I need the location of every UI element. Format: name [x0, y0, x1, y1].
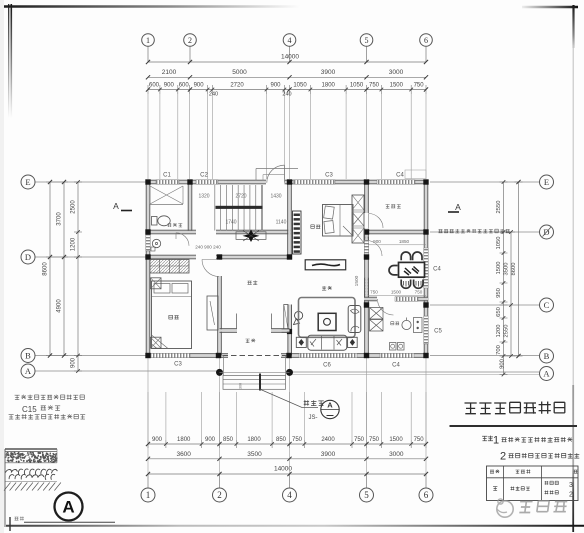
svg-text:4: 4: [287, 490, 292, 500]
svg-text:1: 1: [146, 36, 150, 45]
svg-text:C: C: [544, 300, 550, 310]
svg-text:3900: 3900: [321, 69, 336, 76]
svg-text:1200: 1200: [496, 325, 502, 338]
svg-text:5: 5: [365, 36, 369, 45]
svg-text:750: 750: [292, 437, 303, 443]
svg-text:A: A: [455, 202, 461, 212]
svg-text:C4: C4: [392, 363, 400, 369]
svg-text:3500: 3500: [247, 451, 262, 458]
svg-text:C15: C15: [22, 405, 37, 414]
svg-text:240: 240: [282, 92, 291, 98]
svg-text:2: 2: [569, 492, 573, 499]
svg-text:1050: 1050: [350, 83, 364, 89]
svg-text:300: 300: [239, 383, 243, 389]
svg-text:1: 1: [146, 490, 151, 500]
svg-text:1500: 1500: [390, 83, 404, 89]
svg-text:4: 4: [288, 36, 292, 45]
svg-text:2: 2: [217, 490, 222, 500]
svg-text:2400: 2400: [321, 437, 335, 443]
svg-text:A: A: [62, 498, 74, 517]
svg-text:2720: 2720: [235, 194, 246, 200]
svg-text:900: 900: [194, 83, 205, 89]
svg-text:750: 750: [370, 290, 378, 295]
svg-text:850: 850: [276, 437, 287, 443]
svg-text:2: 2: [500, 451, 506, 463]
svg-text:1800: 1800: [247, 437, 261, 443]
svg-text:2720: 2720: [230, 83, 244, 89]
svg-text:C3: C3: [325, 173, 333, 179]
svg-text:C4: C4: [433, 267, 441, 273]
svg-text:C4: C4: [396, 173, 404, 179]
svg-text:650: 650: [496, 307, 502, 317]
svg-text:C6: C6: [323, 363, 331, 369]
svg-text:2: 2: [188, 36, 192, 45]
svg-text:C3: C3: [174, 362, 182, 368]
svg-text:B: B: [544, 351, 550, 361]
svg-text:C5: C5: [434, 329, 442, 335]
svg-text:3: 3: [569, 482, 573, 489]
svg-text:8600: 8600: [511, 263, 517, 276]
svg-text:700: 700: [496, 345, 502, 355]
svg-text:3900: 3900: [321, 451, 336, 458]
svg-text:1: 1: [493, 435, 499, 447]
svg-text:240: 240: [209, 92, 218, 98]
svg-text:750: 750: [369, 437, 380, 443]
svg-text:A: A: [113, 201, 119, 211]
svg-text:1500: 1500: [389, 437, 403, 443]
svg-text:900: 900: [152, 437, 163, 443]
svg-text:D: D: [25, 252, 31, 262]
svg-text:1200: 1200: [71, 237, 77, 251]
svg-text:3000: 3000: [389, 69, 404, 76]
svg-text:14000: 14000: [281, 54, 299, 61]
svg-text:4900: 4900: [57, 299, 63, 313]
svg-text:3700: 3700: [57, 212, 63, 226]
svg-text:3000: 3000: [389, 451, 404, 458]
svg-text:B: B: [25, 351, 31, 361]
svg-text:1140: 1140: [276, 220, 287, 226]
svg-text:JS-: JS-: [309, 415, 318, 421]
svg-text:A: A: [543, 369, 550, 379]
svg-text:240 900 240: 240 900 240: [195, 245, 221, 250]
svg-text:1500: 1500: [354, 275, 360, 286]
svg-text:6: 6: [424, 36, 428, 45]
svg-text:850: 850: [223, 437, 234, 443]
svg-text:E: E: [25, 177, 30, 187]
svg-text:750: 750: [369, 83, 380, 89]
svg-text:C2: C2: [200, 173, 208, 179]
svg-text:1430: 1430: [270, 194, 281, 200]
svg-text:2550: 2550: [496, 201, 502, 214]
svg-text:1050: 1050: [293, 83, 307, 89]
svg-text:1050: 1050: [496, 237, 502, 250]
svg-text:1500: 1500: [496, 262, 502, 275]
svg-text:3500: 3500: [504, 263, 510, 276]
svg-text:3600: 3600: [176, 451, 191, 458]
svg-text:A: A: [25, 366, 32, 376]
svg-text:1740: 1740: [225, 220, 236, 226]
svg-text:750: 750: [414, 83, 425, 89]
svg-text:900: 900: [205, 437, 216, 443]
svg-text:2100: 2100: [162, 69, 177, 76]
svg-text:900: 900: [500, 359, 506, 369]
svg-text:900: 900: [270, 83, 281, 89]
svg-text:750: 750: [354, 437, 365, 443]
svg-text:2550: 2550: [504, 325, 510, 338]
svg-text:900: 900: [373, 239, 381, 244]
svg-text:900: 900: [164, 83, 175, 89]
svg-text:5000: 5000: [232, 69, 247, 76]
svg-text:1500: 1500: [391, 290, 402, 295]
svg-text:750: 750: [414, 437, 425, 443]
svg-text:6: 6: [424, 490, 429, 500]
svg-text:900: 900: [71, 357, 77, 368]
svg-text:8600: 8600: [43, 262, 49, 276]
svg-text:E: E: [544, 177, 549, 187]
svg-text:750: 750: [415, 290, 423, 295]
svg-text:1800: 1800: [322, 83, 336, 89]
svg-text:2500: 2500: [71, 200, 77, 214]
svg-text:5: 5: [364, 490, 369, 500]
svg-text:600: 600: [149, 83, 160, 89]
svg-text:1320: 1320: [198, 194, 209, 200]
svg-text:C1: C1: [163, 173, 171, 179]
svg-text:600: 600: [179, 83, 190, 89]
svg-text:1800: 1800: [177, 437, 191, 443]
svg-text:950: 950: [496, 288, 502, 298]
svg-text:1850: 1850: [399, 239, 410, 244]
svg-text:A: A: [327, 401, 333, 410]
